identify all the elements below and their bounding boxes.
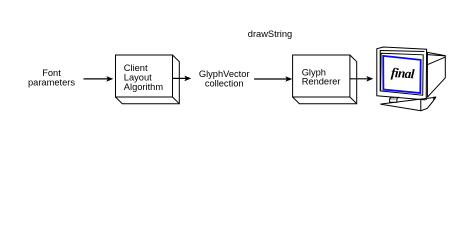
svg-text:drawString: drawString	[248, 29, 292, 39]
svg-text:collection: collection	[205, 78, 244, 88]
svg-text:Algorithm: Algorithm	[124, 82, 164, 92]
svg-text:Renderer: Renderer	[302, 77, 341, 87]
svg-text:parameters: parameters	[28, 78, 75, 88]
svg-text:final: final	[391, 65, 416, 82]
